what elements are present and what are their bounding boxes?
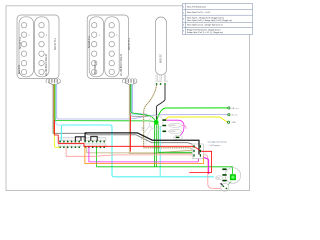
svg-text:NORTH: NORTH: [18, 37, 22, 49]
svg-text:HUMBUCKER: HUMBUCKER: [119, 53, 123, 76]
svg-text:MID SC: MID SC: [159, 54, 163, 63]
svg-text:Bridge Split (Coil 1) + SC (+): Bridge Split (Coil 1) + SC (+) (Toggle u…: [187, 31, 223, 34]
svg-text:+ Coil Tapping +: + Coil Tapping +: [209, 145, 221, 147]
svg-text:Bridge Full Humbucker (Toggle: Bridge Full Humbucker (Toggle down): [187, 29, 221, 31]
svg-text:2: 2: [46, 35, 47, 37]
svg-text:1: 1: [99, 35, 100, 37]
svg-text:3: 3: [183, 19, 184, 21]
svg-text:Neck Split (Coil2) + Bridge Sp: Neck Split (Coil2) + Bridge Split (Coil1…: [187, 19, 232, 22]
svg-text:HB+ out: HB+ out: [232, 107, 239, 110]
svg-text:500k: 500k: [216, 178, 220, 180]
svg-text:HUMBUCKER: HUMBUCKER: [44, 53, 48, 76]
svg-text:SOUTH: SOUTH: [53, 38, 57, 50]
svg-text:NORTH: NORTH: [87, 36, 91, 48]
svg-text:NECK: NECK: [17, 64, 21, 74]
svg-text:SC out: SC out: [232, 114, 238, 117]
svg-text:4: 4: [183, 25, 184, 27]
svg-text:Neck Split (Coil 1) + Coil 2: Neck Split (Coil 1) + Coil 2: [187, 11, 211, 14]
svg-text:Neck Split (Coil 2) + Bridge S: Neck Split (Coil 2) + Bridge Split (Coil…: [187, 23, 223, 26]
svg-text:0.022uF: 0.022uF: [170, 125, 176, 127]
svg-text:1: 1: [183, 7, 184, 9]
svg-text:mini toggle switch (on/on): mini toggle switch (on/on): [208, 141, 228, 144]
svg-text:SOUTH: SOUTH: [127, 38, 131, 50]
svg-text:2: 2: [183, 13, 184, 15]
svg-text:Neck North + Bridge North (Tog: Neck North + Bridge North (Toggle down): [187, 16, 224, 19]
svg-text:GND: GND: [232, 122, 237, 124]
svg-text:5: 5: [183, 31, 184, 33]
svg-text:BRIDGE: BRIDGE: [93, 61, 97, 74]
svg-text:0.022uF: 0.022uF: [170, 131, 176, 133]
svg-text:Neck Full Humbucker: Neck Full Humbucker: [187, 6, 206, 8]
svg-text:2: 2: [116, 35, 117, 37]
svg-text:1: 1: [29, 35, 30, 37]
